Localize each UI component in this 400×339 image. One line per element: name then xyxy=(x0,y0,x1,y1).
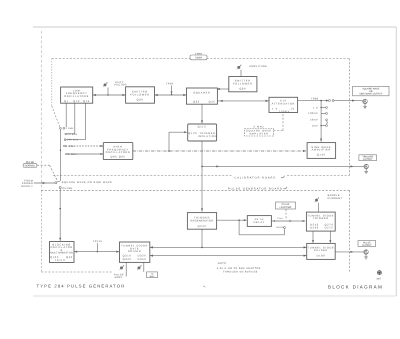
svg-text:PULSE: PULSE xyxy=(26,161,35,164)
svg-text:AMPL.: AMPL. xyxy=(115,276,124,279)
svg-text:OSCILLATORS: OSCILLATORS xyxy=(64,95,89,98)
svg-text:OSCILLATORS: OSCILLATORS xyxy=(106,151,131,154)
svg-text:PULSE GENERATOR BOARD: PULSE GENERATOR BOARD xyxy=(228,188,283,191)
svg-text:100mV: 100mV xyxy=(308,112,318,115)
svg-text:Q1: Q1 xyxy=(64,100,69,103)
svg-text:Q10: Q10 xyxy=(73,100,80,103)
svg-text:AMPLITUDE: AMPLITUDE xyxy=(249,65,267,68)
svg-text:+.: +. xyxy=(203,285,206,289)
svg-text:FOLLOWER: FOLLOWER xyxy=(130,93,149,96)
svg-text:DRIVER: DRIVER xyxy=(128,250,142,253)
svg-text:TYPE 284 PULSE GENERATOR: TYPE 284 PULSE GENERATOR xyxy=(37,284,126,289)
svg-text:DELAY: DELAY xyxy=(254,221,265,224)
svg-text:SQUARER: SQUARER xyxy=(193,92,210,95)
svg-text:AMPLIFIER: AMPLIFIER xyxy=(312,149,331,152)
svg-text:TRIGGER: TRIGGER xyxy=(313,217,329,220)
svg-text:NORM: NORM xyxy=(276,226,284,229)
svg-text:5 MHz: 5 MHz xyxy=(68,153,78,156)
svg-text:TRIGGER: TRIGGER xyxy=(362,156,373,159)
svg-text:TP30: TP30 xyxy=(166,83,174,86)
svg-text:Q115: Q115 xyxy=(198,126,207,129)
svg-text:SQUARE WAVE: SQUARE WAVE xyxy=(362,87,380,90)
svg-text:CALIBRATOR BOARD: CALIBRATOR BOARD xyxy=(234,177,276,180)
svg-text:1 V: 1 V xyxy=(272,107,278,110)
svg-text:MULTIVIBRATOR: MULTIVIBRATOR xyxy=(50,252,73,255)
svg-text:5 MHz: 5 MHz xyxy=(254,125,265,128)
svg-text:Q45: Q45 xyxy=(209,100,216,103)
svg-text:OUTPUT: OUTPUT xyxy=(363,158,373,161)
svg-text:NORMAL: NORMAL xyxy=(25,165,36,168)
svg-text:FACTOR: FACTOR xyxy=(115,84,127,87)
svg-text:10 kHz: 10 kHz xyxy=(67,133,77,136)
svg-text:BIAS: BIAS xyxy=(150,275,155,278)
svg-text:SQUARE WAVE OR SINE WAVE: SQUARE WAVE OR SINE WAVE xyxy=(62,181,113,184)
svg-text:.1V: .1V xyxy=(289,107,295,110)
svg-text:AMPLIFIER: AMPLIFIER xyxy=(249,133,268,136)
svg-text:Q35: Q35 xyxy=(193,100,200,103)
svg-text:D272: D272 xyxy=(325,226,334,229)
svg-text:1mV: 1mV xyxy=(312,124,318,127)
svg-text:THROUGH SN B070155: THROUGH SN B070155 xyxy=(223,270,258,273)
svg-text:PULSER: PULSER xyxy=(314,249,328,252)
svg-text:5 MHz: 5 MHz xyxy=(195,52,203,55)
svg-text:ISOLATION: ISOLATION xyxy=(198,135,217,138)
svg-text:TP115: TP115 xyxy=(93,240,102,243)
svg-text:CURRENT: CURRENT xyxy=(328,197,343,200)
svg-text:OUTPUT: OUTPUT xyxy=(362,244,372,247)
svg-text:Q240: Q240 xyxy=(198,225,207,228)
svg-text:TP80: TP80 xyxy=(311,98,319,101)
svg-text:Q120: Q120 xyxy=(188,132,197,135)
svg-text:Q40: Q40 xyxy=(66,256,73,259)
svg-text:PULSE: PULSE xyxy=(282,203,290,206)
svg-text:Q140: Q140 xyxy=(317,154,326,157)
svg-text:4/67: 4/67 xyxy=(376,278,381,281)
svg-text:100mV: 100mV xyxy=(279,110,290,113)
svg-text:75ns: 75ns xyxy=(277,217,283,220)
svg-text:PULSE: PULSE xyxy=(363,241,371,244)
svg-text:100 kHz: 100 kHz xyxy=(67,139,79,142)
svg-text:Q85 Q95: Q85 Q95 xyxy=(111,155,126,158)
svg-text:NOTE:: NOTE: xyxy=(218,262,228,265)
svg-text:ATTENUATOR: ATTENUATOR xyxy=(272,102,295,105)
svg-text:TP110: TP110 xyxy=(55,259,66,262)
svg-text:A 50 Ω GR TO BNC ADAPTER: A 50 Ω GR TO BNC ADAPTER xyxy=(217,267,261,270)
svg-text:D180: D180 xyxy=(317,254,326,257)
svg-text:D246: D246 xyxy=(310,226,319,229)
svg-text:1 MHz: 1 MHz xyxy=(66,145,76,148)
svg-text:Q30: Q30 xyxy=(137,99,144,102)
svg-text:OR: OR xyxy=(369,90,373,93)
svg-text:1 V: 1 V xyxy=(313,106,318,109)
svg-text:REGENERATOR: REGENERATOR xyxy=(191,219,214,222)
svg-text:1 kHz: 1 kHz xyxy=(66,127,75,130)
svg-text:FOLLOWER: FOLLOWER xyxy=(233,82,252,85)
svg-text:BLOCK DIAGRAM: BLOCK DIAGRAM xyxy=(328,285,383,290)
svg-text:TIMER: TIMER xyxy=(195,57,203,60)
svg-text:D350: D350 xyxy=(138,258,147,261)
svg-text:SUPPLY: SUPPLY xyxy=(21,185,33,188)
svg-text:SINE WAVE OUTPUT: SINE WAVE OUTPUT xyxy=(359,93,382,96)
svg-text:Q80: Q80 xyxy=(239,87,246,90)
svg-text:10mV: 10mV xyxy=(310,119,318,122)
svg-text:PULSE: PULSE xyxy=(63,187,73,190)
svg-text:Q340: Q340 xyxy=(123,258,132,261)
svg-text:LEADTIME: LEADTIME xyxy=(280,206,292,209)
svg-text:Q15: Q15 xyxy=(83,100,90,103)
